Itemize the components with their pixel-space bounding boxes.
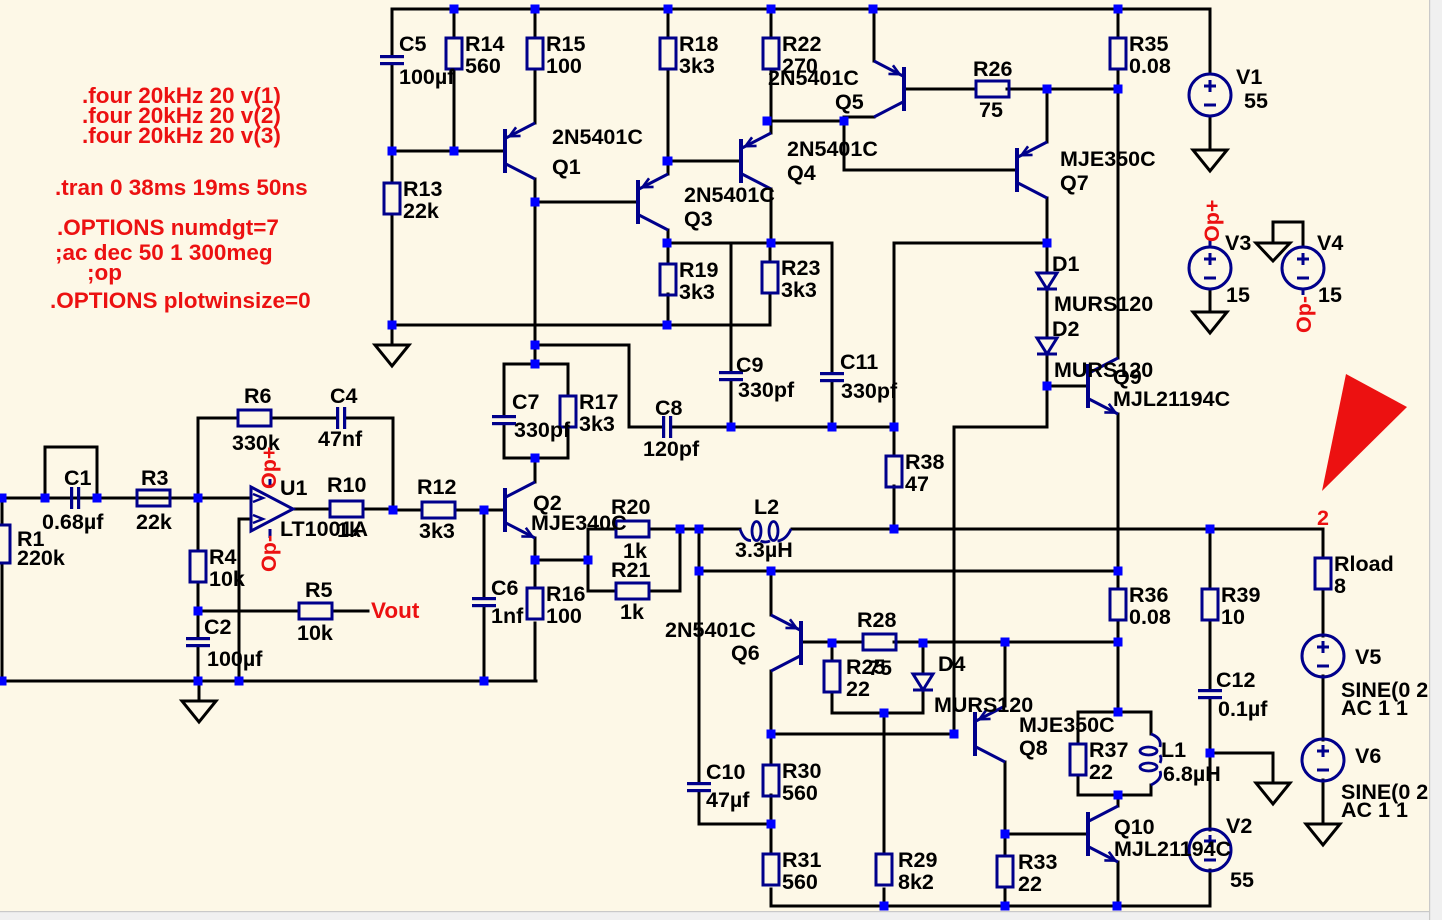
svg-text:Q3: Q3 <box>684 207 713 231</box>
svg-text:Q7: Q7 <box>1060 171 1089 195</box>
svg-text:330pf: 330pf <box>514 418 571 442</box>
svg-text:R35: R35 <box>1129 32 1168 56</box>
svg-text:AC 1 1: AC 1 1 <box>1341 798 1408 822</box>
svg-text:3k3: 3k3 <box>679 54 715 78</box>
svg-text:C8: C8 <box>655 396 683 420</box>
svg-text:C12: C12 <box>1216 668 1255 692</box>
svg-text:R30: R30 <box>782 759 821 783</box>
svg-text:220k: 220k <box>17 546 65 570</box>
svg-text:R15: R15 <box>546 32 585 56</box>
svg-text:2: 2 <box>1317 506 1329 530</box>
svg-text:2N5401C: 2N5401C <box>552 125 643 149</box>
svg-text:Q4: Q4 <box>787 161 816 185</box>
svg-text:AC 1 1: AC 1 1 <box>1341 696 1408 720</box>
svg-text:.four 20kHz 20 v(3): .four 20kHz 20 v(3) <box>82 123 281 148</box>
svg-text:Q6: Q6 <box>731 641 760 665</box>
svg-text:22: 22 <box>1018 872 1042 896</box>
svg-text:MURS120: MURS120 <box>1054 292 1153 316</box>
svg-text:R26: R26 <box>973 57 1012 81</box>
svg-text:Vout: Vout <box>371 598 420 623</box>
svg-text:R29: R29 <box>898 848 937 872</box>
svg-text:2N5401C: 2N5401C <box>665 618 756 642</box>
svg-text:Q9: Q9 <box>1113 365 1142 389</box>
svg-text:47: 47 <box>905 472 929 496</box>
svg-text:10k: 10k <box>209 567 245 591</box>
svg-text:330pf: 330pf <box>738 378 795 402</box>
svg-text:Q10: Q10 <box>1114 815 1155 839</box>
svg-text:MJL21194C: MJL21194C <box>1113 387 1230 411</box>
svg-text:R20: R20 <box>611 495 650 519</box>
svg-text:R37: R37 <box>1089 738 1128 762</box>
svg-text:47nf: 47nf <box>318 427 363 451</box>
svg-text:.OPTIONS plotwinsize=0: .OPTIONS plotwinsize=0 <box>50 288 311 313</box>
svg-text:0.08: 0.08 <box>1129 605 1171 629</box>
svg-text:R3: R3 <box>141 466 169 490</box>
svg-text:10k: 10k <box>297 621 333 645</box>
svg-text:Op-: Op- <box>1292 296 1316 333</box>
svg-text:R22: R22 <box>782 32 821 56</box>
svg-text:120pf: 120pf <box>643 437 700 461</box>
svg-text:D1: D1 <box>1052 252 1080 276</box>
svg-text:R31: R31 <box>782 848 821 872</box>
svg-text:R4: R4 <box>209 545 237 569</box>
svg-text:3k3: 3k3 <box>579 412 615 436</box>
svg-text:R18: R18 <box>679 32 718 56</box>
svg-text:Rload: Rload <box>1334 552 1394 576</box>
svg-text:15: 15 <box>1318 283 1342 307</box>
svg-text:0.1µf: 0.1µf <box>1218 697 1268 721</box>
svg-text:100: 100 <box>546 604 582 628</box>
svg-text:100µf: 100µf <box>399 65 455 89</box>
svg-text:V2: V2 <box>1226 814 1252 838</box>
svg-text:3.3µH: 3.3µH <box>735 538 793 562</box>
svg-text:47µf: 47µf <box>706 788 750 812</box>
svg-text:U1: U1 <box>280 476 308 500</box>
svg-text:R5: R5 <box>305 578 333 602</box>
svg-text:R10: R10 <box>327 473 366 497</box>
svg-text:R16: R16 <box>546 582 585 606</box>
svg-text:V6: V6 <box>1355 744 1381 768</box>
svg-text:R36: R36 <box>1129 583 1168 607</box>
svg-text:560: 560 <box>782 870 818 894</box>
svg-text:V1: V1 <box>1236 65 1262 89</box>
svg-text:8: 8 <box>1334 574 1346 598</box>
svg-text:75: 75 <box>979 98 1003 122</box>
svg-text:1k: 1k <box>620 600 644 624</box>
svg-text:Op+: Op+ <box>257 447 281 489</box>
svg-text:0.68µf: 0.68µf <box>42 510 104 534</box>
svg-text:22k: 22k <box>136 510 172 534</box>
svg-text:2N5401C: 2N5401C <box>768 66 859 90</box>
svg-text:8k2: 8k2 <box>898 870 934 894</box>
svg-text:C5: C5 <box>399 32 427 56</box>
svg-text:R19: R19 <box>679 258 718 282</box>
svg-text:22k: 22k <box>403 199 439 223</box>
svg-text:Q5: Q5 <box>835 90 864 114</box>
svg-text:75: 75 <box>868 656 892 680</box>
svg-text:2N5401C: 2N5401C <box>787 137 878 161</box>
svg-text:55: 55 <box>1244 89 1268 113</box>
svg-text:3k3: 3k3 <box>679 280 715 304</box>
svg-text:.OPTIONS numdgt=7: .OPTIONS numdgt=7 <box>57 215 279 240</box>
svg-text:V5: V5 <box>1355 645 1381 669</box>
svg-text:1k: 1k <box>337 518 361 542</box>
svg-text:C6: C6 <box>491 576 519 600</box>
svg-text:330pf: 330pf <box>841 379 898 403</box>
svg-text:0.08: 0.08 <box>1129 54 1171 78</box>
svg-text:V4: V4 <box>1317 231 1343 255</box>
svg-text:560: 560 <box>465 54 501 78</box>
svg-text:560: 560 <box>782 781 818 805</box>
svg-text:15: 15 <box>1226 283 1250 307</box>
svg-text:D4: D4 <box>938 652 966 676</box>
svg-text:55: 55 <box>1230 868 1254 892</box>
svg-text:MJL21194C: MJL21194C <box>1114 837 1231 861</box>
svg-text:22: 22 <box>846 677 870 701</box>
svg-text:Op-: Op- <box>257 535 281 572</box>
svg-text:R12: R12 <box>417 475 456 499</box>
svg-text:V3: V3 <box>1225 231 1251 255</box>
svg-text:2N5401C: 2N5401C <box>684 183 775 207</box>
svg-text:C4: C4 <box>330 384 358 408</box>
svg-text:R38: R38 <box>905 450 944 474</box>
svg-text:C11: C11 <box>840 350 878 374</box>
svg-text:R17: R17 <box>579 390 618 414</box>
svg-text:3k3: 3k3 <box>781 278 817 302</box>
svg-text:R13: R13 <box>403 177 442 201</box>
svg-text:;op: ;op <box>87 260 122 285</box>
svg-text:Q1: Q1 <box>552 155 581 179</box>
svg-text:Q8: Q8 <box>1019 736 1048 760</box>
svg-text:C7: C7 <box>512 390 540 414</box>
svg-text:MJE350C: MJE350C <box>1060 147 1156 171</box>
svg-text:10: 10 <box>1221 605 1245 629</box>
svg-text:Op+: Op+ <box>1200 200 1224 242</box>
svg-text:1nf: 1nf <box>491 604 524 628</box>
svg-text:.tran 0 38ms 19ms 50ns: .tran 0 38ms 19ms 50ns <box>55 175 308 200</box>
svg-text:C1: C1 <box>64 466 92 490</box>
svg-text:R28: R28 <box>857 608 896 632</box>
svg-text:R21: R21 <box>611 558 650 582</box>
svg-text:R14: R14 <box>465 32 504 56</box>
svg-text:D2: D2 <box>1052 317 1080 341</box>
svg-text:R33: R33 <box>1018 850 1057 874</box>
svg-text:3k3: 3k3 <box>419 519 455 543</box>
svg-text:MJE350C: MJE350C <box>1019 713 1115 737</box>
svg-text:R23: R23 <box>781 256 820 280</box>
svg-text:6.8µH: 6.8µH <box>1163 762 1221 786</box>
svg-text:22: 22 <box>1089 760 1113 784</box>
svg-text:L2: L2 <box>754 495 779 519</box>
svg-text:L1: L1 <box>1161 738 1186 762</box>
svg-text:R39: R39 <box>1221 583 1260 607</box>
svg-text:100µf: 100µf <box>207 647 263 671</box>
svg-text:R6: R6 <box>244 384 272 408</box>
svg-text:C2: C2 <box>204 615 232 639</box>
svg-text:C9: C9 <box>736 353 764 377</box>
svg-text:100: 100 <box>546 54 582 78</box>
svg-text:C10: C10 <box>706 760 745 784</box>
